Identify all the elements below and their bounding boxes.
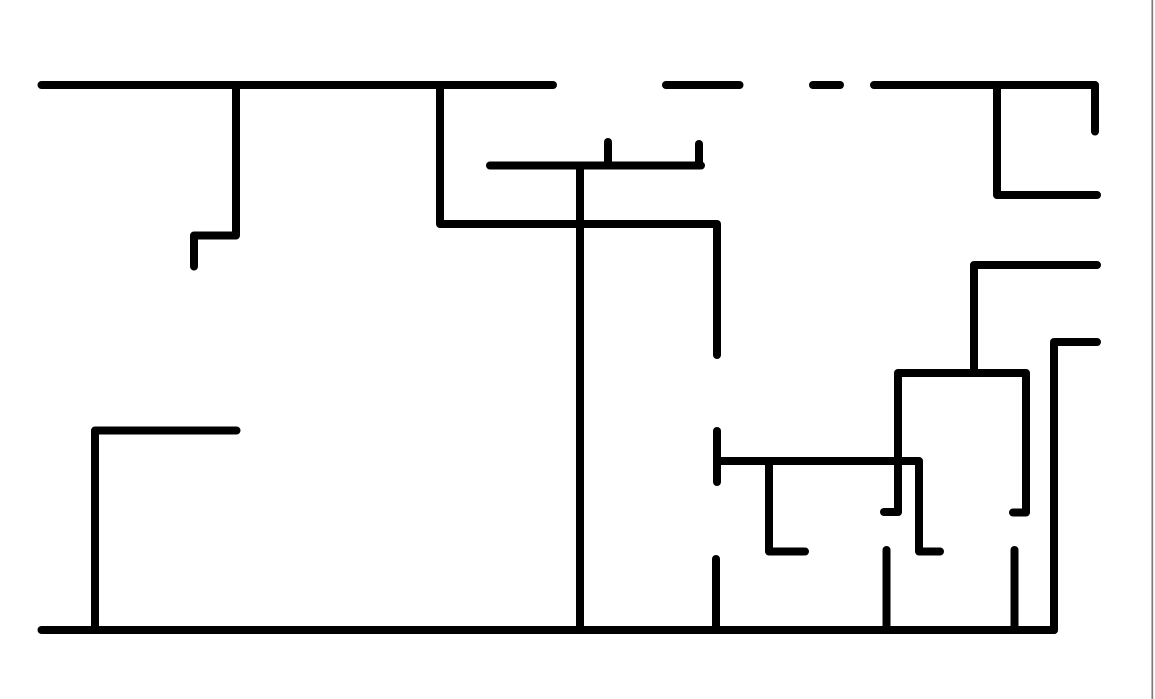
wire R7 to D1 (813, 81, 840, 89)
wire drain bus (898, 373, 1026, 513)
wire T2 emitter node (713, 431, 721, 482)
wire N$14 top rail (42, 81, 554, 89)
wire Q2 drain link (884, 508, 898, 516)
wire GND pin drop (604, 142, 612, 166)
wire GND descend N$15 (576, 166, 584, 631)
wire emitter bus to Q3 gate (717, 461, 940, 552)
wire GND terminal run (1054, 342, 1097, 630)
wire regulator IN rail (666, 81, 740, 89)
wire +24VMOTOR branch (997, 85, 1097, 195)
wire IC1 ground bus (95, 431, 237, 631)
wire N$14 drop to bus (440, 85, 717, 355)
wire T3 collector drop (712, 559, 720, 630)
wire C6 minus drop (695, 144, 703, 166)
wire Q2 source drop (883, 550, 891, 630)
border right (1151, 0, 1153, 699)
wire bottom GND rail (42, 626, 1055, 634)
wire Q2 gate branch (769, 461, 805, 552)
wire Q3 source drop (1011, 550, 1019, 630)
wire N$19 +24V rail (874, 85, 1095, 132)
wire GNDMOTOR run (974, 265, 1097, 373)
wire IC1 pin4 supply (194, 85, 236, 267)
wire GND bus under regulator (490, 162, 701, 170)
